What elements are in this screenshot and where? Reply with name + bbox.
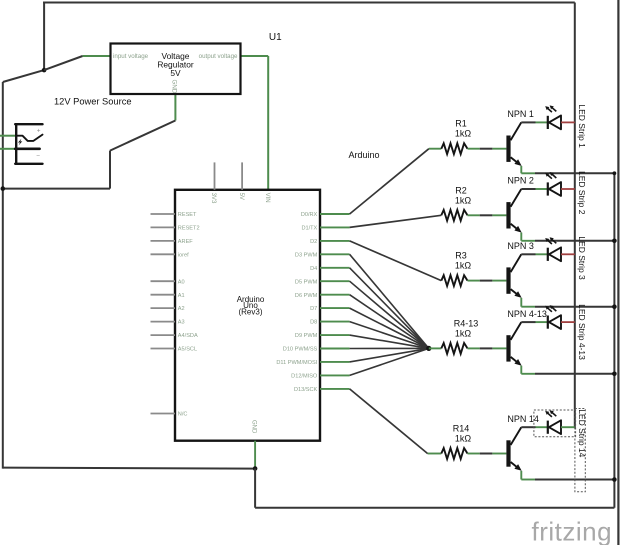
transistor Q1 NPN — [506, 122, 521, 166]
node emitter bus corner — [613, 171, 617, 175]
svg-text:D12/MISO: D12/MISO — [291, 374, 318, 380]
wire Q4-13 emitter rail — [521, 366, 614, 374]
pin D7 lead (green) — [310, 306, 349, 312]
pin A5/SCL lead — [151, 347, 198, 353]
svg-text:1kΩ: 1kΩ — [455, 328, 472, 338]
node junction top-left — [42, 68, 47, 73]
LED D4-13 — [545, 305, 561, 329]
wire left vertical from top corner to junction — [43, 2, 45, 71]
svg-text:GND: GND — [251, 420, 257, 434]
svg-text:R1: R1 — [455, 119, 467, 129]
svg-text:A3: A3 — [178, 320, 185, 326]
svg-text:output voltage: output voltage — [199, 53, 238, 60]
pin AREF lead — [151, 239, 194, 245]
pin D3 PWM lead (green) — [295, 252, 350, 258]
label U1 — [269, 32, 282, 43]
label NPN 1 — [507, 109, 534, 119]
transistor Q2 NPN — [506, 189, 521, 233]
wire regulator GND stub (green) — [174, 95, 176, 121]
transistor Q14 NPN — [506, 427, 521, 471]
svg-text:D1/TX: D1/TX — [301, 226, 317, 232]
svg-text:GND: GND — [170, 80, 177, 94]
pin D6 PWM lead (green) — [295, 293, 350, 299]
svg-text:NPN 3: NPN 3 — [507, 241, 534, 251]
wire LED1 anode to bus (red) — [561, 121, 575, 123]
wire R1 to Q1 base — [468, 148, 507, 150]
pin N/C lead — [151, 412, 188, 418]
wire D2 to R3 — [350, 241, 442, 281]
svg-text:D4: D4 — [310, 266, 317, 272]
resistor R3 1k — [441, 251, 471, 286]
svg-text:N/C: N/C — [178, 412, 188, 418]
svg-text:D2: D2 — [310, 239, 317, 245]
svg-text:1kΩ: 1kΩ — [455, 434, 472, 444]
svg-text:D6 PWM: D6 PWM — [295, 293, 318, 299]
pin 3V3 stub — [210, 162, 216, 204]
label NPN 2 — [507, 176, 534, 186]
node junction emitter bus 4-13 — [612, 372, 617, 377]
svg-text:R4-13: R4-13 — [454, 318, 479, 328]
pin GND stub (green) — [251, 420, 257, 469]
pin D1/TX lead (green) — [301, 226, 349, 232]
LED D1 — [545, 105, 561, 129]
wire D13/SCK to R14 — [350, 389, 442, 454]
wire LED anode bus vertical x=574.8 — [574, 3, 576, 429]
transistor Q3 NPN — [506, 254, 521, 298]
svg-text:R2: R2 — [455, 185, 467, 195]
arduino U2 body Arduino Uno (Rev3) — [175, 190, 320, 441]
svg-text:5V: 5V — [238, 193, 244, 200]
pin A1 lead — [151, 293, 185, 299]
wire diagonal junction to regulator input — [44, 56, 83, 70]
wire GND down from junction — [254, 469, 256, 508]
pin D2 lead (green) — [310, 239, 349, 245]
LED D14 — [545, 410, 561, 434]
transistor Q4-13 NPN — [506, 322, 521, 366]
dashed box LED Strip 14 label — [575, 409, 585, 492]
label LED Strip 3 — [577, 236, 587, 280]
label 12V Power Source — [54, 97, 132, 107]
label NPN 14 — [507, 414, 539, 424]
label LED Strip 4-13 — [577, 304, 587, 360]
pin D12/MISO lead (green) — [291, 374, 349, 380]
svg-text:D9 PWM: D9 PWM — [295, 333, 318, 339]
svg-text:NPN 2: NPN 2 — [507, 176, 534, 186]
wire R2 to Q2 base — [468, 214, 507, 216]
wire power source - lead (green) — [0, 148, 15, 150]
battery J1 12V power source barrel jack — [15, 123, 42, 165]
svg-text:LED Strip 1: LED Strip 1 — [577, 104, 587, 148]
pin RESET2 lead — [151, 226, 200, 232]
node junction left rail GND — [1, 186, 6, 191]
wire top 5V rail (44,2.5)-(575,2.5) — [43, 2, 575, 4]
svg-text:RESET2: RESET2 — [178, 226, 200, 232]
svg-text:A2: A2 — [178, 306, 185, 312]
svg-text:A5/SCL: A5/SCL — [178, 347, 197, 353]
pin A3 lead — [151, 320, 185, 326]
pin 5V stub — [238, 162, 244, 200]
wire Q1 collector to LED1 — [521, 121, 548, 123]
label LED Strip 1 — [577, 104, 587, 148]
svg-text:1kΩ: 1kΩ — [455, 195, 472, 205]
node junction R4-13 — [426, 346, 431, 351]
wire D0/RX to R1 — [350, 149, 442, 214]
svg-text:NPN 1: NPN 1 — [507, 109, 534, 119]
svg-text:AREF: AREF — [178, 239, 194, 245]
label NPN 3 — [507, 241, 534, 251]
wire R4-13 to Q4-13 base — [468, 347, 507, 349]
wire Q3 emitter rail — [521, 298, 614, 307]
svg-text:LED Strip 2: LED Strip 2 — [577, 171, 587, 215]
svg-text:VIN: VIN — [264, 193, 270, 203]
pin D13/SCK lead (green) — [294, 387, 350, 393]
wire Q1 emitter rail — [521, 166, 614, 173]
node junction emitter bus 2 — [612, 239, 617, 244]
wire R3 to Q3 base — [468, 280, 507, 282]
wire LED14 anode to bus (green) — [561, 426, 575, 428]
svg-text:−: − — [36, 153, 40, 160]
svg-text:D5 PWM: D5 PWM — [295, 279, 318, 285]
svg-text:D8: D8 — [310, 320, 317, 326]
wire left rail vertical x=2.8 — [2, 82, 4, 469]
wire LED3 anode to bus (red) — [561, 253, 575, 255]
node junction emitter bus 14 — [612, 477, 617, 482]
pin D0/RX lead (green) — [301, 212, 350, 218]
wire power source + lead (green) — [0, 135, 15, 137]
svg-text:A4/SDA: A4/SDA — [178, 333, 198, 339]
node junction arduino GND — [253, 466, 258, 471]
wire diagonal junction to left rail — [3, 70, 44, 82]
pin A4/SDA lead — [151, 333, 198, 339]
svg-text:NPN 4-13: NPN 4-13 — [507, 309, 547, 319]
svg-text:ioref: ioref — [178, 252, 189, 258]
node junction emitter bus 3 — [612, 304, 617, 309]
svg-text:U1: U1 — [269, 32, 282, 43]
pin D5 PWM lead (green) — [295, 279, 350, 285]
svg-text:12V Power Source: 12V Power Source — [54, 97, 132, 107]
label NPN 4-13 — [507, 309, 547, 319]
wire R14 to Q14 base — [468, 453, 507, 455]
svg-text:D7: D7 — [310, 306, 317, 312]
svg-text:R14: R14 — [453, 424, 470, 434]
pin D11 PWM/MOSI lead (green) — [276, 360, 349, 366]
pin A2 lead — [151, 306, 185, 312]
pin D4 lead (green) — [310, 266, 349, 272]
wire regulator GND horizontal to left rail — [3, 188, 110, 190]
wire fan D3-D12 to node — [350, 254, 429, 375]
label Arduino (part label) — [349, 150, 380, 160]
svg-text:RESET: RESET — [178, 212, 197, 218]
wire bottom emitter return (255,507.7)-(614.4,507.7) — [255, 507, 614, 509]
wire regulator GND vertical x=110 — [109, 151, 111, 189]
svg-text:5V: 5V — [170, 68, 181, 78]
svg-text:D10 PWM/SS: D10 PWM/SS — [283, 347, 318, 353]
svg-text:D3 PWM: D3 PWM — [295, 252, 318, 258]
svg-text:Arduino: Arduino — [349, 150, 380, 160]
wire D1/TX to R2 — [350, 215, 442, 227]
wire bottom ground run (2.8,468.6)-(255.1,468.6) — [3, 468, 255, 469]
wire LED4-13 anode to bus (red) — [561, 321, 575, 323]
svg-text:+: + — [37, 128, 41, 135]
wire Q4-13 collector to LED4-13 — [521, 321, 548, 323]
svg-text:A1: A1 — [178, 293, 185, 299]
pin A0 lead — [151, 279, 185, 285]
LED D2 — [545, 172, 561, 196]
label LED Strip 2 — [577, 171, 587, 215]
label LED Strip 14 — [577, 409, 587, 457]
wire LED2 anode to bus (red) — [561, 188, 575, 190]
svg-text:A0: A0 — [178, 279, 185, 285]
wire regulator output lead (green) — [240, 55, 268, 57]
svg-text:LED Strip 3: LED Strip 3 — [577, 236, 587, 280]
logo fritzing — [532, 517, 613, 545]
LED D3 — [545, 237, 561, 261]
dashed box LED 14 — [534, 410, 576, 437]
svg-text:LED Strip 4-13: LED Strip 4-13 — [577, 304, 587, 360]
pin D8 lead (green) — [310, 320, 349, 326]
svg-text:D0/RX: D0/RX — [301, 212, 318, 218]
resistor R2 1k — [441, 185, 471, 220]
wire 5V output down to Arduino VIN (green) — [267, 56, 269, 190]
pin VIN label — [264, 193, 270, 203]
wire regulator input lead (green) — [83, 55, 111, 57]
pin ioref lead — [151, 252, 190, 258]
pin D10 PWM/SS lead (green) — [283, 347, 350, 353]
wire Q14 collector to LED14 — [521, 426, 548, 428]
svg-text:1kΩ: 1kΩ — [455, 261, 472, 271]
wire node to R4-13 (green) — [429, 347, 442, 349]
voltage regulator U1 5V — [111, 44, 241, 95]
resistor R4-13 1k — [441, 318, 478, 353]
wire Q2 collector to LED2 — [521, 188, 548, 190]
resistor R14 1k — [441, 424, 471, 459]
pin D9 PWM lead (green) — [295, 333, 350, 339]
pin RESET lead — [151, 212, 198, 218]
wire right edge vertical x=618.4 (cropped) — [617, 0, 619, 545]
wire emitter bus vertical x=614.4 — [613, 173, 615, 507]
svg-text:input voltage: input voltage — [113, 53, 149, 60]
svg-text:D13/SCK: D13/SCK — [294, 387, 318, 393]
svg-text:D11 PWM/MOSI: D11 PWM/MOSI — [276, 360, 317, 366]
svg-text:R3: R3 — [455, 251, 467, 261]
wire Q3 collector to LED3 — [521, 253, 548, 255]
wire Q14 emitter rail — [521, 471, 614, 480]
wire regulator GND diagonal — [110, 121, 175, 151]
svg-text:(Rev3): (Rev3) — [238, 307, 262, 316]
svg-text:1kΩ: 1kΩ — [455, 129, 472, 139]
wire Q2 emitter rail — [521, 233, 614, 241]
svg-text:fritzing: fritzing — [532, 517, 613, 545]
resistor R1 1k — [441, 119, 471, 154]
svg-text:3V3: 3V3 — [210, 193, 216, 204]
